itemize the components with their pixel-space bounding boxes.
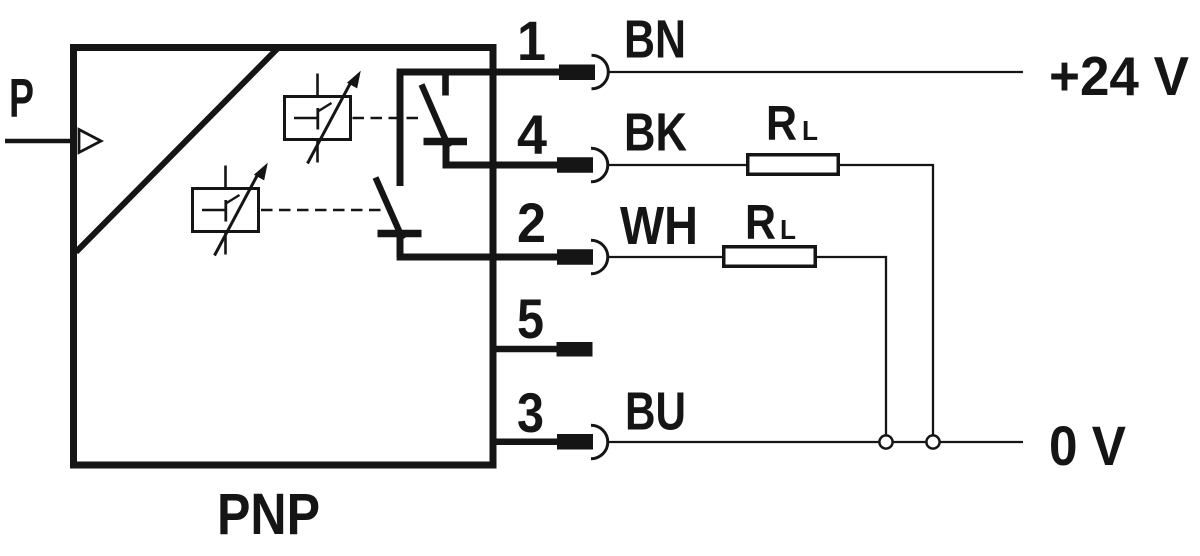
- wire pin1 bus (internal supply to pin 1): [397, 69, 559, 76]
- wire RL2 to 0 V rail: [817, 257, 886, 435]
- resistor RL1: [748, 155, 839, 175]
- pin 2 terminal: [557, 249, 593, 265]
- switch S2 contact crossbar: [378, 230, 422, 238]
- threshold comparator B2 (lower): [193, 164, 268, 256]
- svg-text:+24 V: +24 V: [1049, 45, 1189, 107]
- svg-text:L: L: [780, 214, 796, 245]
- svg-text:P: P: [9, 67, 34, 129]
- dashed link B1 to switch S1: [353, 117, 423, 120]
- pin 3 terminal: [557, 434, 593, 450]
- wire pin2 to resistor RL2: [608, 256, 726, 258]
- switch S1 output lead: [443, 142, 450, 166]
- junction circle RL2 to 0 V: [879, 435, 892, 448]
- svg-text:PNP: PNP: [217, 482, 320, 547]
- svg-text:L: L: [802, 115, 818, 146]
- svg-text:1: 1: [517, 9, 546, 72]
- wire pin4 to resistor RL1: [608, 164, 750, 166]
- dashed link B2 to switch S2: [261, 209, 383, 212]
- svg-text:2: 2: [517, 191, 546, 254]
- wire +24 V supply: [607, 71, 1023, 73]
- svg-text:R: R: [745, 196, 776, 250]
- P input arrowhead: [79, 130, 101, 153]
- svg-text:BN: BN: [624, 10, 686, 70]
- svg-text:3: 3: [517, 381, 544, 444]
- switch S2 output lead: [397, 234, 404, 258]
- pin 4 terminal: [557, 157, 593, 173]
- wire pin2 (S2 output to pin 2): [397, 254, 559, 261]
- svg-text:R: R: [766, 97, 797, 151]
- junction circle RL1 to 0 V: [926, 435, 939, 448]
- svg-text:4: 4: [517, 103, 547, 166]
- wire pin3 stub from box: [493, 439, 558, 445]
- wire P input: [5, 139, 76, 144]
- sensor body box: [74, 48, 494, 466]
- resistor RL2: [724, 247, 816, 267]
- switch S1 fixed contact lead: [442, 72, 449, 96]
- switch S1 contact crossbar: [424, 138, 468, 146]
- wire pin4 (S1 output to pin 4): [443, 162, 560, 169]
- sensor body diagonal: [76, 48, 278, 252]
- pin 5 terminal: [557, 342, 593, 357]
- pin 1 connector socket: [592, 55, 609, 89]
- svg-text:WH: WH: [620, 196, 698, 256]
- pin 2 connector socket: [591, 240, 608, 274]
- pin 1 terminal: [559, 65, 595, 81]
- resistor RL1 value label: [766, 97, 818, 151]
- switch S1 movable arm: [422, 85, 449, 148]
- wire pin5 stub from box: [493, 346, 558, 352]
- svg-text:0 V: 0 V: [1049, 414, 1126, 477]
- pin 3 connector socket: [591, 425, 608, 459]
- svg-text:BK: BK: [624, 103, 687, 163]
- svg-text:5: 5: [517, 287, 544, 350]
- resistor RL2 value label: [745, 196, 796, 250]
- switch S2 movable arm: [376, 178, 403, 240]
- wire 0 V rail: [608, 441, 1024, 443]
- wire RL1 to 0 V rail: [840, 165, 933, 435]
- switch S2 feed lead: [397, 72, 404, 186]
- pin 4 connector socket: [591, 148, 608, 182]
- svg-text:BU: BU: [625, 382, 686, 442]
- threshold comparator B1 (upper): [285, 72, 361, 164]
